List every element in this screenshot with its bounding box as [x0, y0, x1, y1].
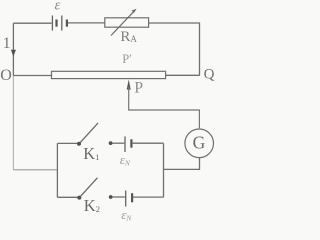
wire standard cell to right rail [132, 142, 163, 144]
switch K1 contact dot [109, 141, 113, 145]
svg-text:P: P [134, 79, 143, 96]
rheostat arrow of RA [111, 9, 137, 36]
battery E short plate 2 [66, 20, 68, 27]
svg-text:P′: P′ [122, 52, 132, 66]
standard cell short plate [130, 139, 132, 147]
switch K1 pivot dot [77, 142, 81, 146]
slide-wire bar body [52, 71, 166, 78]
svg-text:K1: K1 [83, 144, 99, 163]
left rail top corner down to O [12, 23, 14, 75]
battery E short plate 1 [55, 20, 57, 27]
wire bar right end to Q junction [166, 74, 200, 76]
wire rheostat to top-right corner and right rail down to Q [149, 23, 200, 76]
svg-text:O: O [0, 67, 12, 84]
cells common right rail [163, 143, 165, 197]
svg-text:G: G [193, 133, 206, 153]
wire battery to rheostat [68, 22, 105, 24]
galvanometer G circle [185, 129, 214, 158]
wire K2 contact to cell x [113, 196, 125, 198]
battery E tall plate 1 [51, 16, 53, 31]
svg-text:εN: εN [121, 207, 132, 222]
svg-text:RA: RA [120, 29, 137, 45]
switch K1 blade [80, 123, 98, 143]
svg-text:K2: K2 [84, 196, 100, 215]
cell x short plate [131, 193, 133, 202]
switch junction rail vertical [56, 143, 58, 197]
svg-text:Q: Q [204, 67, 215, 83]
wire slider P down and right to galvanometer [129, 87, 200, 129]
wire G bottom to cells junction [164, 158, 200, 170]
battery E tall plate 2 [61, 16, 63, 31]
resistor RA body [105, 18, 149, 27]
standard cell tall plate [124, 136, 126, 152]
cell x tall plate [125, 191, 127, 207]
switch K2 contact dot [109, 195, 113, 199]
svg-text:εN: εN [120, 152, 131, 167]
slider P arrow head [127, 79, 131, 89]
wire top rail left segment [13, 22, 51, 24]
switch K2 pivot dot [77, 196, 81, 200]
wire cell x to right rail [133, 196, 164, 198]
wire K2 branch from rail [57, 196, 77, 198]
svg-text:1: 1 [3, 35, 11, 52]
switch K2 blade [80, 178, 97, 197]
left rail O down to bottom corner (faint) [12, 76, 14, 170]
svg-text:ε: ε [55, 0, 61, 13]
wire K1 branch from rail [57, 142, 77, 144]
wire O to slide-wire bar [13, 75, 51, 77]
current arrow I on left rail [11, 50, 16, 57]
wire K1 contact to standard cell [113, 142, 125, 144]
wire left rail bottom corner to switch rail [13, 169, 57, 171]
